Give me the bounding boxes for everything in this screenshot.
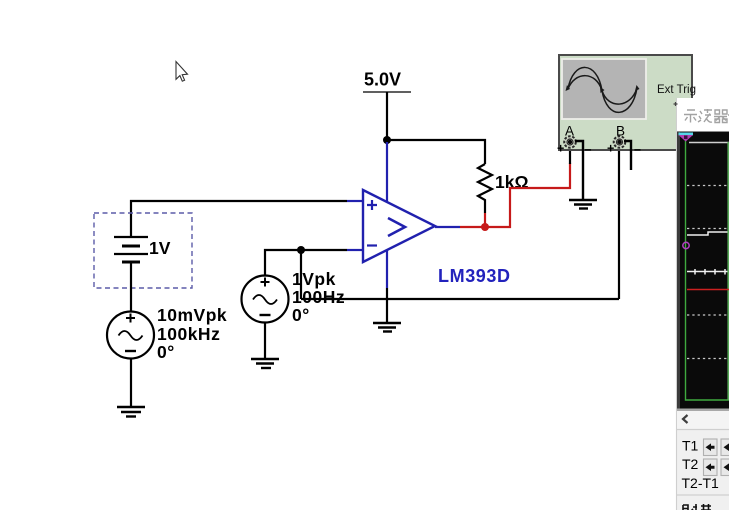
selection dashed rectangle: [94, 213, 192, 288]
node junction dot minus input: [297, 246, 305, 254]
oscilloscope dialog panel: [676, 98, 729, 510]
wire V2 to ground: [130, 359, 132, 408]
labels 10mVpk 100kHz 0deg: [157, 305, 227, 362]
wire junction down to B channel line: [300, 250, 302, 299]
svg-text:0°: 0°: [292, 305, 310, 325]
cursor green line: [686, 140, 729, 400]
wire B channel horizontal: [301, 298, 619, 300]
svg-text:0°: 0°: [157, 342, 175, 362]
svg-text:LM393D: LM393D: [438, 266, 511, 286]
trace channel B white step: [687, 232, 729, 235]
wire output red to scope A: [485, 163, 570, 227]
svg-text:1Vpk: 1Vpk: [292, 269, 336, 289]
dialog title bar: [677, 98, 729, 131]
svg-text:T2-T1: T2-T1: [682, 475, 720, 491]
wire V3 to ground: [264, 323, 266, 360]
svg-text:–: –: [585, 143, 592, 157]
wire battery bottom to V2: [130, 262, 132, 312]
ext trig terminal mark remnant: [674, 102, 678, 106]
icon screen: [562, 59, 646, 119]
wire B minus stub: [624, 141, 631, 170]
trace red line: [687, 289, 729, 291]
dialog controls T2 row: [682, 456, 729, 476]
node output junction dot (red): [481, 223, 489, 231]
svg-text:5.0V: 5.0V: [364, 70, 401, 90]
svg-text:Ext Trig: Ext Trig: [657, 84, 696, 96]
wire V3 top to minus input: [265, 250, 347, 276]
VCC power symbol bar: [363, 91, 411, 93]
terminal A socket: [564, 136, 576, 148]
terminal polarity marks: [557, 142, 641, 157]
svg-text:T1: T1: [682, 438, 699, 454]
svg-text:T2: T2: [682, 456, 699, 472]
pin stub GND bottom: [386, 250, 388, 288]
resistor R1 zigzag: [478, 164, 492, 213]
dialog separator: [677, 494, 729, 496]
icon sine waves: [568, 67, 637, 112]
ground under V2: [117, 407, 145, 417]
terminal B socket: [614, 136, 626, 148]
node junction dot at 5V rail: [383, 136, 391, 144]
wire A minus hook: [575, 141, 583, 200]
wire op-amp gnd pin down: [386, 288, 388, 323]
wire black stub below terminal A: [569, 146, 571, 164]
dialog controls T1 row: [682, 438, 729, 456]
svg-text:+: +: [607, 142, 614, 156]
ground under op-amp: [373, 323, 401, 332]
trigger marker triangle: [679, 133, 694, 142]
trace channel A white with ticks: [687, 269, 729, 275]
labels 1Vpk 100Hz 0deg: [292, 269, 345, 325]
svg-text:100kHz: 100kHz: [157, 324, 220, 344]
battery V1 plates: [114, 237, 148, 262]
ground under scope A: [569, 200, 597, 209]
svg-text:10mVpk: 10mVpk: [157, 305, 227, 325]
cursor T2 green line right edge: [727, 142, 729, 400]
AC source V3 circle: [242, 276, 289, 323]
op-amp chevron symbol: [388, 218, 405, 236]
grid top line: [689, 142, 729, 144]
dialog label CJK 时基 approx: [683, 504, 711, 510]
AC source V2 circle: [107, 312, 154, 359]
svg-text:+: +: [557, 142, 564, 156]
oscilloscope XSC1 icon body: [557, 55, 696, 157]
screen bottom border: [677, 409, 729, 412]
wire VCC down to junction: [386, 92, 388, 144]
op-amp U1 comparator triangle: [347, 142, 460, 288]
power rail 5.0V label: [364, 70, 401, 90]
ground under V3: [251, 359, 279, 368]
cursor handle purple circle: [683, 242, 689, 248]
grid dashed lines: [687, 186, 729, 359]
op-amp minus input mark: [367, 244, 377, 246]
dialog title CJK 示波器 approx: [684, 109, 729, 123]
svg-text:1V: 1V: [149, 238, 171, 258]
pin stub plus input: [347, 200, 363, 202]
wire junction to resistor top: [387, 140, 485, 164]
dialog scrollbar row: [677, 411, 729, 430]
wire B channel up to scope: [618, 146, 620, 299]
op-amp plus input mark: [367, 200, 377, 210]
mouse cursor: [176, 62, 188, 82]
pin stub VCC top: [386, 142, 388, 202]
wire resistor bottom red segment: [484, 213, 486, 227]
wire output blue-to-red piece: [460, 226, 482, 228]
dialog scope screen: [677, 132, 729, 409]
svg-text:–: –: [634, 143, 641, 157]
wire plus-input from battery: [131, 201, 347, 237]
pin stub output: [435, 226, 460, 228]
pin stub minus input: [347, 249, 363, 251]
